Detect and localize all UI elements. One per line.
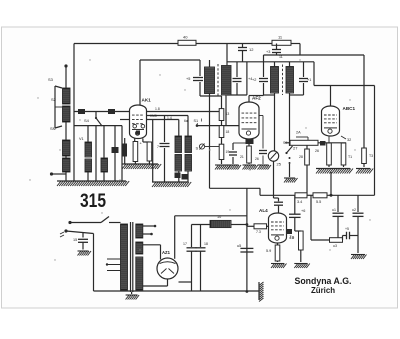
svg-text:32: 32 [347, 138, 351, 142]
svg-text:28: 28 [299, 155, 303, 159]
svg-text:AL4: AL4 [259, 208, 268, 213]
svg-text:25: 25 [277, 162, 282, 167]
svg-text:+2: +2 [252, 78, 256, 82]
svg-text:40: 40 [183, 35, 188, 40]
svg-text:S3: S3 [48, 77, 54, 82]
svg-text:26: 26 [255, 157, 259, 161]
svg-text:3.4: 3.4 [297, 200, 302, 204]
svg-text:13: 13 [226, 112, 230, 116]
svg-text:Tg: Tg [290, 235, 294, 239]
svg-text:+6: +6 [301, 209, 305, 213]
svg-text:15: 15 [73, 238, 77, 242]
svg-text:7.3: 7.3 [256, 230, 261, 234]
svg-text:+5: +5 [345, 227, 349, 231]
svg-text:5.9: 5.9 [266, 249, 271, 253]
svg-text:5.5: 5.5 [316, 200, 321, 204]
svg-text:21: 21 [240, 155, 244, 159]
svg-text:S2: S2 [51, 97, 57, 102]
svg-text:2A: 2A [296, 131, 301, 135]
svg-text:u5: u5 [237, 244, 241, 248]
svg-text:18: 18 [204, 242, 208, 246]
svg-text:+5: +5 [186, 77, 190, 81]
svg-text:6a: 6a [184, 119, 188, 123]
svg-text:10: 10 [217, 215, 221, 219]
svg-text:u2: u2 [352, 208, 356, 212]
svg-text:T3: T3 [369, 154, 373, 158]
svg-text:1.8: 1.8 [155, 107, 160, 111]
svg-text:+1: +1 [307, 78, 311, 82]
svg-text:18: 18 [226, 130, 230, 134]
svg-text:11: 11 [279, 55, 283, 59]
svg-text:V1: V1 [79, 137, 84, 141]
svg-text:AK1: AK1 [142, 98, 152, 103]
svg-text:7: 7 [157, 145, 159, 149]
svg-text:315: 315 [80, 190, 106, 212]
svg-text:ABC1: ABC1 [343, 106, 356, 111]
svg-text:19: 19 [226, 150, 230, 154]
svg-text:27: 27 [293, 146, 298, 151]
svg-text:S: S [196, 146, 199, 151]
svg-text:+3: +3 [266, 50, 270, 54]
svg-text:S4: S4 [84, 118, 90, 123]
svg-text:S1: S1 [194, 119, 199, 123]
svg-text:17: 17 [183, 242, 187, 246]
svg-text:AZ1: AZ1 [162, 250, 171, 255]
svg-text:Zürich: Zürich [311, 286, 335, 295]
svg-text:26: 26 [315, 149, 319, 153]
svg-text:12: 12 [249, 47, 254, 52]
svg-text:u1: u1 [332, 208, 336, 212]
svg-text:T1: T1 [348, 155, 352, 159]
svg-text:Sondyna A.G.: Sondyna A.G. [295, 276, 352, 286]
svg-text:u3: u3 [333, 244, 337, 248]
svg-text:AF2: AF2 [252, 96, 261, 101]
